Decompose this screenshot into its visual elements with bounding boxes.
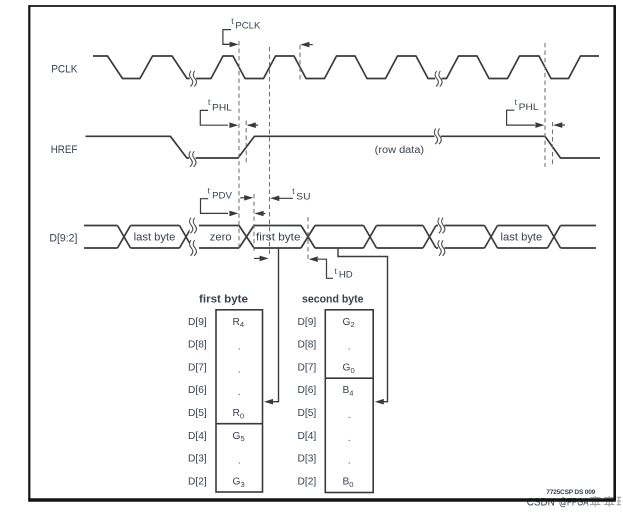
svg-text:HD: HD	[339, 270, 353, 281]
svg-text:first byte: first byte	[199, 294, 248, 306]
table 2 box	[325, 310, 373, 493]
svg-text:D[3]: D[3]	[298, 454, 317, 465]
svg-text:first byte: first byte	[256, 232, 301, 244]
annotation tPDV label	[201, 185, 239, 216]
svg-text:D[6]: D[6]	[188, 385, 207, 396]
svg-text:D[5]: D[5]	[298, 408, 317, 419]
svg-text:.: .	[238, 456, 241, 467]
svg-text:D[9]: D[9]	[298, 317, 317, 328]
dashed guide E : PCLK falling edge (right)	[544, 43, 546, 167]
annotation tSU label with arrow	[270, 186, 310, 203]
svg-text:second byte: second byte	[302, 294, 364, 306]
table 1 row labels	[188, 317, 207, 488]
svg-text:7725CSP DS 009: 7725CSP DS 009	[546, 489, 595, 496]
svg-text:D[9:2]: D[9:2]	[49, 233, 77, 245]
annotation tPHL right label	[507, 97, 545, 128]
HREF break 1	[189, 151, 196, 167]
annotation tPHL right inner arrow	[553, 122, 565, 128]
watermark CJK glyph blocks	[590, 496, 621, 507]
annotation tPCLK right arrow	[300, 42, 312, 48]
svg-text:(row data): (row data)	[375, 145, 424, 156]
annotation tHD left inner arrow	[254, 256, 269, 262]
dashed guide A : PCLK falling edge 1	[238, 41, 240, 250]
svg-text:D[8]: D[8]	[188, 340, 207, 351]
svg-text:.: .	[238, 364, 241, 375]
svg-text:last byte: last byte	[501, 232, 543, 244]
svg-text:D[8]: D[8]	[298, 340, 317, 351]
bus top line	[84, 225, 596, 227]
svg-text:SU: SU	[296, 192, 310, 203]
svg-text:D[6]: D[6]	[298, 385, 317, 396]
watermark CSDN @FPGA...	[527, 497, 589, 509]
dashed guide D : data change (tHD)	[307, 217, 309, 263]
bus break 1 bottom	[190, 240, 197, 256]
svg-text:.: .	[348, 456, 351, 467]
annotation tPDV right inner arrow	[255, 211, 266, 217]
svg-text:.: .	[348, 433, 351, 444]
table 1 box	[216, 310, 263, 492]
table 2 row labels	[298, 317, 317, 488]
svg-text:PCLK: PCLK	[51, 64, 78, 76]
svg-text:D[2]: D[2]	[188, 476, 207, 487]
PCLK break 2	[435, 71, 442, 87]
bus X crossings	[118, 226, 131, 249]
svg-text:D[4]: D[4]	[188, 431, 207, 442]
svg-text:D[9]: D[9]	[188, 317, 207, 328]
svg-text:PHL: PHL	[519, 102, 540, 113]
PCLK waveform	[93, 56, 599, 79]
svg-text:D[3]: D[3]	[188, 454, 207, 465]
table 2 values	[343, 317, 355, 489]
svg-text:.: .	[348, 342, 351, 353]
dashed guide F : HREF fall mid	[552, 122, 554, 167]
HREF waveform	[86, 136, 601, 158]
svg-text:PDV: PDV	[212, 191, 232, 202]
svg-text:D[7]: D[7]	[298, 362, 317, 373]
dashed guide P2 : PCLK falling edge 2	[299, 45, 301, 82]
dashed guide A2 : HREF rise mid	[245, 121, 247, 165]
svg-text:.: .	[348, 410, 351, 421]
svg-text:D[5]: D[5]	[188, 408, 207, 419]
svg-text:PHL: PHL	[212, 102, 233, 113]
svg-text:zero: zero	[210, 232, 232, 244]
svg-text:HREF: HREF	[51, 144, 78, 156]
bus break 1 top	[190, 217, 197, 233]
annotation tPCLK label	[223, 16, 261, 47]
leader line from first byte segment to table 1	[264, 249, 279, 405]
svg-text:.: .	[238, 387, 241, 398]
svg-text:D[7]: D[7]	[188, 362, 207, 373]
leader line from second byte segment to table 2	[338, 249, 388, 405]
table 1 divider	[216, 423, 263, 425]
annotation tSU left inner arrow	[240, 195, 253, 201]
bus bottom line	[84, 247, 596, 249]
bus break 2 bottom	[438, 240, 445, 256]
D[9:2] bus waveform	[84, 226, 596, 249]
svg-text:PCLK: PCLK	[235, 21, 261, 32]
svg-text:last byte: last byte	[134, 232, 176, 244]
dashed guide B : data valid	[253, 194, 255, 251]
svg-text:D[4]: D[4]	[298, 431, 317, 442]
svg-text:.: .	[238, 342, 241, 353]
annotation tPHL left label	[200, 97, 238, 128]
PCLK break 1	[190, 71, 197, 87]
HREF break 2	[434, 128, 441, 144]
annotation tHD label with bracket arrow	[309, 256, 353, 280]
dashed guide C : PCLK rising edge	[269, 47, 271, 256]
svg-text:D[2]: D[2]	[298, 476, 317, 487]
bus break 2 top	[438, 217, 445, 233]
annotation tPHL left inner arrow	[247, 122, 258, 128]
table 2 divider	[325, 377, 373, 379]
table 1 values	[233, 317, 245, 489]
